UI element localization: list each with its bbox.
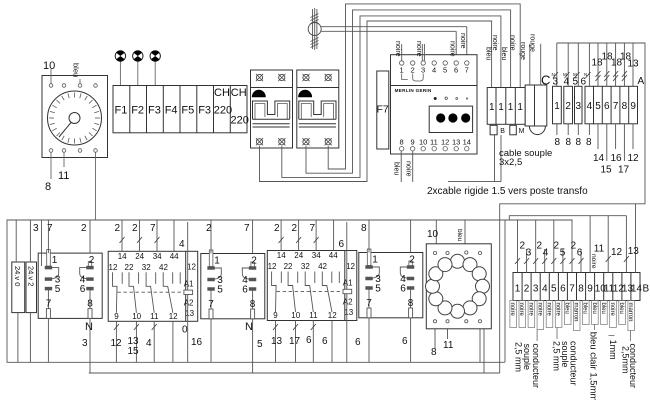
svg-text:bleu: bleu — [485, 47, 492, 60]
svg-text:2: 2 — [274, 223, 280, 234]
svg-text:11: 11 — [594, 244, 605, 255]
svg-text:3: 3 — [553, 77, 559, 88]
svg-text:8: 8 — [400, 138, 404, 147]
svg-text:10: 10 — [43, 60, 55, 72]
svg-text:14: 14 — [593, 153, 605, 164]
svg-text:rouge: rouge — [519, 42, 526, 60]
svg-text:noire: noire — [555, 303, 561, 317]
svg-text:4: 4 — [542, 284, 548, 295]
svg-text:CH: CH — [214, 87, 230, 99]
svg-text:2: 2 — [115, 223, 121, 234]
svg-text:MERLIN GERIN: MERLIN GERIN — [395, 88, 432, 93]
svg-text:24.v 0: 24.v 0 — [13, 266, 22, 286]
svg-text:12: 12 — [611, 247, 623, 258]
svg-text:noire: noire — [545, 303, 551, 317]
svg-text:2xcable rigide 1.5 vers poste: 2xcable rigide 1.5 vers poste transfo — [427, 186, 588, 197]
svg-text:3x2,5: 3x2,5 — [499, 157, 522, 168]
svg-text:220: 220 — [214, 105, 232, 117]
svg-text:bleu: bleu — [618, 303, 624, 314]
svg-text:4: 4 — [179, 239, 185, 250]
svg-text:2: 2 — [411, 66, 415, 75]
svg-text:0: 0 — [182, 325, 188, 336]
svg-text:3: 3 — [526, 248, 532, 259]
svg-text:12: 12 — [628, 153, 640, 164]
svg-text:7: 7 — [310, 223, 316, 234]
svg-text:5: 5 — [257, 339, 263, 350]
svg-text:6: 6 — [402, 336, 408, 347]
svg-text:3: 3 — [533, 284, 539, 295]
svg-text:N: N — [85, 321, 93, 333]
svg-text:bleu clair 1,5mm: bleu clair 1,5mm — [588, 332, 599, 400]
svg-text:marron: marron — [573, 303, 579, 322]
svg-text:noire: noire — [518, 303, 524, 317]
svg-text:2: 2 — [81, 223, 87, 234]
svg-text:15: 15 — [128, 346, 140, 357]
svg-text:6: 6 — [306, 335, 312, 346]
svg-text:6: 6 — [339, 239, 345, 250]
svg-text:noire: noire — [509, 303, 515, 317]
svg-text:220: 220 — [231, 115, 249, 127]
svg-text:1: 1 — [498, 102, 504, 113]
svg-text:16: 16 — [191, 337, 203, 348]
svg-text:3: 3 — [82, 338, 88, 349]
svg-text:2: 2 — [520, 241, 526, 252]
svg-text:16: 16 — [611, 153, 623, 164]
svg-text:8: 8 — [566, 137, 572, 148]
svg-text:6: 6 — [322, 336, 328, 347]
svg-text:13: 13 — [628, 246, 640, 257]
svg-text:CH: CH — [231, 87, 247, 99]
svg-text:8: 8 — [45, 181, 51, 193]
svg-text:11: 11 — [430, 138, 438, 147]
svg-text:1: 1 — [508, 102, 514, 113]
svg-text:7: 7 — [569, 284, 575, 295]
svg-text:bleu: bleu — [500, 47, 507, 60]
svg-text:10: 10 — [427, 229, 439, 240]
svg-text:6: 6 — [577, 248, 583, 259]
svg-text:12: 12 — [441, 138, 449, 147]
svg-text:bleu: bleu — [456, 229, 463, 242]
svg-text:M: M — [519, 128, 525, 135]
svg-text:12: 12 — [111, 338, 123, 349]
svg-text:10: 10 — [419, 138, 427, 147]
svg-text:conducteur: conducteur — [628, 344, 638, 389]
svg-text:8: 8 — [361, 223, 367, 234]
svg-text:F5: F5 — [181, 105, 194, 117]
svg-text:noire: noire — [394, 41, 401, 57]
svg-text:7: 7 — [244, 223, 250, 234]
svg-text:6: 6 — [454, 66, 458, 75]
svg-text:B: B — [643, 284, 650, 295]
svg-text:3: 3 — [576, 101, 582, 112]
svg-text:7: 7 — [150, 223, 156, 234]
svg-text:noire: noire — [405, 161, 412, 177]
svg-text:F1: F1 — [115, 105, 128, 117]
svg-text:6: 6 — [560, 284, 566, 295]
svg-text:noire: noire — [527, 303, 533, 317]
svg-text:1: 1 — [554, 101, 560, 112]
svg-text:2,5 mm: 2,5 mm — [552, 341, 562, 371]
svg-text:1: 1 — [489, 102, 495, 113]
svg-text:N: N — [245, 321, 253, 333]
svg-text:2: 2 — [571, 241, 577, 252]
svg-text:7: 7 — [47, 223, 53, 234]
svg-text:F3: F3 — [148, 105, 161, 117]
svg-text:8: 8 — [586, 137, 592, 148]
svg-text:2,5 mm: 2,5 mm — [514, 342, 524, 372]
svg-text:24.v 2: 24.v 2 — [27, 266, 36, 286]
svg-text:2: 2 — [292, 223, 298, 234]
svg-text:2: 2 — [565, 101, 571, 112]
svg-text:6: 6 — [581, 77, 587, 88]
svg-text:F2: F2 — [131, 105, 144, 117]
svg-text:13: 13 — [271, 336, 283, 347]
svg-text:bleu: bleu — [591, 303, 597, 314]
svg-text:4: 4 — [543, 248, 549, 259]
svg-text:2: 2 — [554, 241, 560, 252]
svg-text:8: 8 — [576, 137, 582, 148]
svg-text:F7: F7 — [377, 104, 389, 116]
svg-text:F3: F3 — [198, 105, 211, 117]
svg-text:7: 7 — [613, 101, 619, 112]
svg-text:noire: noire — [415, 41, 422, 57]
svg-text:13: 13 — [628, 59, 640, 70]
svg-text:marron: marron — [627, 303, 633, 322]
svg-text:B: B — [500, 128, 505, 135]
svg-text:8: 8 — [622, 101, 628, 112]
svg-text:noire: noire — [449, 41, 456, 57]
svg-text:14: 14 — [463, 138, 471, 147]
svg-text:3: 3 — [421, 66, 425, 75]
svg-text:4: 4 — [146, 338, 152, 349]
svg-text:4: 4 — [564, 77, 570, 88]
svg-text:9: 9 — [587, 284, 593, 295]
svg-text:bleu: bleu — [600, 303, 606, 314]
svg-text:8: 8 — [578, 284, 584, 295]
svg-text:bleu: bleu — [393, 162, 400, 175]
svg-text:noire: noire — [509, 35, 516, 51]
svg-text:noire: noire — [609, 303, 615, 317]
svg-text:souple: souple — [560, 341, 570, 368]
svg-text:3: 3 — [33, 223, 39, 234]
svg-text:noire: noire — [491, 35, 498, 51]
svg-text:11: 11 — [58, 170, 69, 182]
svg-text:17: 17 — [618, 165, 630, 176]
svg-text:bleu: bleu — [564, 303, 570, 314]
svg-text:13: 13 — [452, 138, 460, 147]
svg-text:5: 5 — [573, 77, 579, 88]
svg-text:11: 11 — [443, 340, 454, 351]
svg-text:5: 5 — [443, 66, 447, 75]
svg-text:5: 5 — [551, 284, 557, 295]
svg-text:5: 5 — [560, 248, 566, 259]
svg-text:bleu: bleu — [72, 63, 81, 77]
svg-text:2: 2 — [524, 284, 530, 295]
svg-text:bleu: bleu — [582, 303, 588, 314]
svg-text:F4: F4 — [165, 105, 178, 117]
svg-text:4: 4 — [432, 66, 436, 75]
svg-text:14: 14 — [631, 284, 643, 295]
svg-text:noire: noire — [590, 254, 597, 269]
svg-text:noire: noire — [536, 303, 542, 317]
svg-text:conducteur: conducteur — [531, 344, 541, 389]
svg-text:1: 1 — [517, 102, 523, 113]
svg-text:6: 6 — [604, 101, 610, 112]
svg-text:15: 15 — [601, 165, 613, 176]
svg-text:A: A — [638, 76, 645, 87]
svg-text:8: 8 — [555, 137, 561, 148]
svg-text:1: 1 — [400, 66, 404, 75]
svg-text:2: 2 — [206, 223, 212, 234]
svg-text:4: 4 — [587, 101, 593, 112]
svg-text:C: C — [541, 73, 550, 88]
svg-text:noire: noire — [459, 33, 466, 49]
svg-text:2: 2 — [132, 223, 138, 234]
svg-text:5: 5 — [595, 101, 601, 112]
svg-text:1: 1 — [515, 284, 521, 295]
svg-text:2: 2 — [537, 241, 543, 252]
svg-text:9: 9 — [411, 138, 415, 147]
svg-text:6: 6 — [355, 337, 361, 348]
svg-text:1mm: 1mm — [608, 340, 618, 360]
svg-text:conducteur: conducteur — [569, 341, 579, 386]
svg-text:7: 7 — [465, 66, 469, 75]
svg-text:souple: souple — [522, 344, 532, 371]
svg-text:9: 9 — [630, 101, 636, 112]
svg-text:8: 8 — [431, 347, 437, 358]
svg-text:17: 17 — [289, 336, 301, 347]
